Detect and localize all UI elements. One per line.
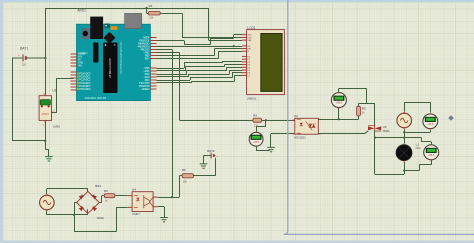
lcd LCD1 — [247, 30, 285, 95]
wire U2 pin4 to gate — [318, 133, 364, 135]
wire U2 cathode to ground — [271, 133, 295, 135]
wire D3 — [157, 70, 186, 72]
meter VM3 — [424, 144, 439, 161]
svg-text:PC4/ADC4: PC4/ADC4 — [79, 85, 91, 88]
svg-text:D5: D5 — [248, 70, 250, 72]
svg-text:R5: R5 — [362, 106, 366, 110]
svg-text:D2: D2 — [248, 62, 250, 64]
wire U2 pin6 row — [318, 119, 358, 121]
sensor U1 LM35 — [39, 93, 54, 124]
ground U1 — [45, 157, 53, 161]
svg-text:D1: D1 — [248, 59, 250, 61]
svg-text:AREF2: AREF2 — [142, 88, 150, 91]
svg-text:PD7: PD7 — [145, 58, 150, 61]
svg-text:PC3/ADC3: PC3/ADC3 — [79, 82, 91, 85]
ground BAT2 — [200, 164, 208, 168]
wire BAT1 minus down — [12, 58, 14, 141]
wire to U4 collector — [157, 49, 173, 51]
svg-text:VOUT: VOUT — [42, 112, 50, 116]
wire bottom rail — [74, 231, 116, 233]
ground AM1 — [267, 147, 275, 151]
wire meter VM2 bottom — [430, 130, 432, 132]
svg-text:+: + — [217, 155, 219, 158]
svg-text:BAT2: BAT2 — [207, 149, 215, 153]
svg-text:PC817: PC817 — [132, 213, 140, 216]
wire meter VM3 bottom loop — [431, 161, 433, 165]
svg-text:60W: 60W — [416, 147, 422, 150]
svg-text:12V: 12V — [22, 62, 27, 66]
ground U4 — [160, 218, 168, 222]
svg-text:5V: 5V — [78, 60, 81, 62]
arduino left pins — [71, 54, 77, 90]
wire mains top to meter VM2 — [404, 102, 406, 112]
wire R1 to LCD VDD — [160, 13, 182, 15]
arduino ARD1 board — [77, 13, 151, 100]
svg-text:PC2/ADC2: PC2/ADC2 — [79, 79, 91, 82]
wire RW — [157, 55, 215, 57]
svg-text:+88.8: +88.8 — [336, 102, 343, 105]
svg-text:1k: 1k — [362, 112, 365, 115]
wire AM1 to ground — [256, 147, 258, 151]
wire D4 — [157, 74, 188, 76]
svg-text:GND: GND — [78, 63, 83, 65]
svg-text:VIN: VIN — [78, 66, 82, 68]
svg-text:PC5/ADC5: PC5/ADC5 — [79, 88, 91, 91]
resistor R1 — [145, 7, 147, 9]
wire D2 — [157, 68, 185, 70]
svg-text:www.TheEngineeringProjects.com: www.TheEngineeringProjects.com — [120, 42, 123, 74]
wire top rail to LCD VEE — [208, 8, 210, 40]
svg-text:U2: U2 — [294, 114, 298, 118]
wire VSS — [157, 40, 185, 42]
wire R6 to BAT2 — [193, 175, 215, 177]
svg-text:TRIAC: TRIAC — [383, 130, 390, 133]
svg-text:U3: U3 — [383, 125, 387, 129]
wire to R4 — [157, 52, 180, 54]
wire junction BAT1 plus — [44, 57, 46, 59]
svg-text:D0: D0 — [248, 56, 250, 58]
svg-text:R4: R4 — [253, 113, 257, 117]
svg-text:W04G: W04G — [97, 217, 104, 220]
svg-text:PC0/ADC0: PC0/ADC0 — [79, 73, 91, 76]
svg-text:ARD1: ARD1 — [77, 9, 86, 13]
wire top rail — [45, 8, 208, 10]
wire D5 — [157, 76, 189, 78]
optocoupler U4 — [127, 192, 158, 212]
svg-text:MOC3021: MOC3021 — [294, 137, 306, 140]
svg-text:L1: L1 — [416, 142, 420, 146]
svg-text:3V3: 3V3 — [78, 57, 83, 59]
wire bridge bottom stub — [87, 209, 89, 215]
svg-text:D6: D6 — [248, 73, 250, 75]
wire MT1 to lamp bottom — [375, 174, 404, 176]
wire R3 to U4 — [115, 195, 127, 197]
cursor marker — [448, 115, 454, 121]
wire R4 to U2 — [262, 120, 295, 122]
wire D6 — [157, 80, 191, 82]
svg-text:R3: R3 — [104, 189, 108, 193]
svg-text:U4: U4 — [132, 187, 136, 191]
wire mains to lamp — [404, 129, 406, 143]
sheet bottom margin — [0, 241, 474, 243]
sheet top margin — [0, 0, 474, 3]
wire meter AM1 tap — [265, 120, 267, 126]
svg-text:2: 2 — [54, 110, 56, 112]
svg-text:D4: D4 — [248, 67, 250, 69]
svg-text:VDD: VDD — [248, 37, 253, 39]
svg-text:R1: R1 — [149, 4, 153, 8]
optocoupler U2 — [292, 118, 320, 134]
svg-text:LM35: LM35 — [53, 125, 60, 129]
svg-text:+88.8: +88.8 — [253, 141, 260, 144]
svg-text:1: 1 — [43, 93, 45, 95]
svg-text:+88.8: +88.8 — [427, 123, 434, 126]
wire V1 bottom — [46, 211, 48, 215]
wire BAT2 to ground — [203, 156, 205, 164]
meter VM2 — [423, 113, 438, 129]
svg-text:BR1: BR1 — [95, 184, 101, 188]
meter AM1 — [249, 132, 263, 147]
svg-text:RW: RW — [248, 49, 251, 51]
resistor R4 — [253, 118, 262, 122]
resistor R3 — [104, 194, 115, 198]
svg-text:3: 3 — [43, 125, 45, 127]
wire U1 pin3 to ground — [45, 120, 47, 149]
lamp L1 — [396, 143, 412, 162]
resistor R5 — [358, 103, 360, 106]
battery BAT1 — [12, 53, 45, 61]
svg-text:R6: R6 — [182, 168, 186, 172]
wire V1 top to bridge — [46, 189, 48, 194]
ac source V2 mains — [397, 112, 412, 129]
sheet left margin — [0, 0, 3, 243]
wire meter VM1 bottom — [338, 108, 340, 120]
bridge rectifier BR1 — [77, 191, 100, 213]
svg-text:10k: 10k — [149, 17, 154, 20]
svg-text:1k: 1k — [105, 199, 108, 203]
svg-text:+: + — [18, 53, 20, 57]
wire E — [157, 58, 219, 60]
wire MT1 branch to meter VM3 — [375, 137, 421, 139]
svg-text:ATMEGA328P: ATMEGA328P — [108, 58, 112, 78]
svg-text:+88.8: +88.8 — [428, 154, 435, 157]
arduino right pins — [150, 38, 156, 90]
svg-text:D3: D3 — [248, 65, 250, 67]
svg-text:LM016L: LM016L — [247, 97, 257, 101]
svg-text:PC1/ADC1: PC1/ADC1 — [79, 76, 91, 79]
triac U3 — [368, 125, 381, 132]
wire U4 collector — [158, 197, 179, 199]
wire bridge left to bottom rail — [74, 202, 77, 204]
wire D7 — [157, 82, 192, 84]
meter VM1 — [331, 92, 346, 109]
wire U4 emitter to ground — [158, 206, 164, 208]
svg-text:LCD1: LCD1 — [247, 26, 255, 30]
svg-text:D7: D7 — [248, 75, 250, 77]
svg-text:BAT1: BAT1 — [20, 47, 28, 51]
wire meter VM1 top loop — [338, 88, 340, 92]
svg-text:10k: 10k — [183, 180, 188, 184]
resistor R6 — [179, 175, 182, 177]
wire triac MT1 down — [374, 131, 376, 174]
battery BAT2 — [204, 153, 219, 159]
svg-text:RESET: RESET — [78, 54, 86, 56]
wire U1 VOUT to Arduino — [52, 112, 57, 114]
ac source V1 — [40, 194, 55, 211]
wire RS — [157, 46, 243, 48]
sheet border — [284, 0, 474, 234]
wire bridge right to R3 — [99, 202, 102, 204]
wire R5 to triac MT2 — [374, 103, 376, 126]
svg-text:ARDUINO UNO R3: ARDUINO UNO R3 — [85, 97, 107, 100]
